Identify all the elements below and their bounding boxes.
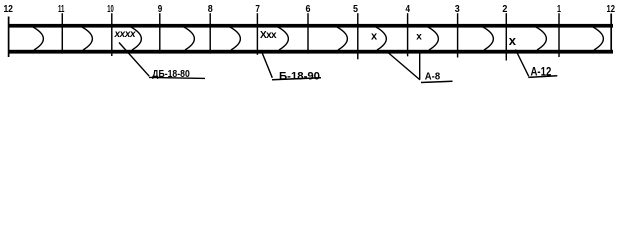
rail joint arc in panel 3-2 [483, 27, 494, 50]
svg-text:12: 12 [606, 3, 615, 15]
leader line (diagonal) to label A-8 [388, 53, 420, 80]
gridline 6 [307, 13, 309, 53]
svg-text:5: 5 [353, 3, 358, 15]
svg-text:9: 9 [158, 3, 163, 15]
svg-text:2: 2 [502, 3, 507, 15]
bottom chord of beam [8, 50, 613, 54]
top chord of beam [8, 24, 613, 28]
rail joint arc in panel 8-7 [230, 27, 241, 50]
gridline 9 [159, 13, 161, 53]
underline of label A-12 [528, 76, 557, 78]
rail joint arc in panel 5-4 [376, 27, 387, 50]
gridline 5 [357, 13, 359, 59]
svg-text:xxxx: xxxx [114, 29, 136, 40]
svg-text:11: 11 [58, 3, 65, 15]
svg-text:8: 8 [208, 3, 213, 15]
rail joint arc in panel 7-6 [278, 27, 289, 50]
svg-text:x: x [509, 33, 517, 48]
gridline 12 left end post [8, 17, 10, 58]
rail joint arc in panel 10-9 [131, 27, 142, 50]
svg-text:Б-18-90: Б-18-90 [279, 70, 320, 82]
gridline 11 [61, 13, 63, 53]
rail joint arc in panel 11-10 [82, 27, 93, 50]
rail joint arc in panel 6-5 [337, 27, 348, 50]
gridline 2 [505, 13, 507, 60]
svg-text:1: 1 [557, 3, 561, 15]
rail joint arc in panel 4-3 [428, 27, 439, 50]
svg-text:6: 6 [306, 3, 311, 15]
underline of label B-18-90 [272, 78, 321, 80]
svg-text:12: 12 [3, 3, 13, 15]
gridline 4 [407, 13, 409, 56]
svg-text:Xxx: Xxx [260, 30, 277, 41]
underline of label A-8 [421, 81, 453, 82]
gridline 8 [209, 13, 211, 53]
gridline 1 [558, 13, 560, 57]
svg-text:x: x [416, 32, 422, 43]
svg-text:А-8: А-8 [425, 71, 440, 83]
svg-text:3: 3 [455, 3, 460, 15]
leader line to label DB-18-80 [119, 43, 149, 77]
svg-text:x: x [371, 31, 378, 43]
underline of label DB-18-80 [149, 77, 205, 78]
gridline 10 [111, 13, 113, 56]
rail joint arc in panel 12-11 [33, 27, 44, 50]
rail joint arc in panel 2-1 [536, 27, 547, 50]
leader line to label A-12 [516, 50, 529, 77]
gridline 3 [457, 13, 459, 57]
svg-text:10: 10 [107, 3, 114, 15]
gridline 7 [256, 13, 258, 55]
svg-text:7: 7 [255, 3, 260, 15]
leader line (vertical) to label A-8 [419, 52, 421, 80]
leader line to label B-18-90 [261, 50, 272, 78]
rail joint arc in panel 1-12 [593, 27, 604, 50]
gridline 12 right end post [610, 14, 612, 54]
rail joint arc in panel 9-8 [184, 27, 195, 50]
svg-text:4: 4 [406, 3, 411, 15]
